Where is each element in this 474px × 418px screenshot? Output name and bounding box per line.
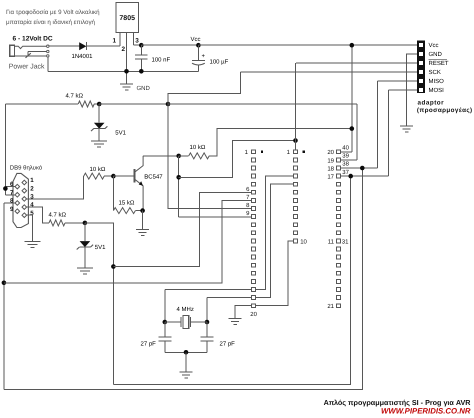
label adaptor — [418, 100, 445, 107]
label R5 10 kOhm — [190, 144, 206, 151]
wire xtal2 drop — [206, 298, 208, 322]
label DB9 pin 5 — [30, 210, 34, 217]
label R4 4.7 kOhm — [49, 212, 67, 219]
ground zener1 — [91, 141, 107, 147]
node Vcc junction — [196, 43, 201, 48]
label GND pin — [429, 51, 443, 58]
svg-text:1N4001: 1N4001 — [72, 53, 94, 60]
wire collector to R5 — [179, 155, 189, 157]
wire MOSI bottom run — [113, 176, 350, 385]
svg-text:Power Jack: Power Jack — [9, 64, 45, 71]
IC socket column B pins — [294, 150, 298, 243]
capacitor C2 100uF electrolytic — [192, 45, 205, 71]
label C3 27 pF — [141, 341, 157, 348]
svg-text:11: 11 — [328, 238, 335, 245]
svg-text:15 kΩ: 15 kΩ — [119, 200, 135, 207]
svg-text:9: 9 — [246, 210, 250, 217]
label colA pin20 — [250, 311, 257, 318]
marker colA pin1 — [261, 151, 263, 153]
label Vcc — [191, 36, 201, 43]
wire base node to Q1 — [113, 175, 134, 177]
svg-text:10 kΩ: 10 kΩ — [190, 144, 206, 151]
label GND — [137, 85, 151, 92]
ground under 7805 — [120, 84, 133, 90]
label MOSI pin — [429, 87, 445, 94]
wire xtal1 drop — [164, 290, 166, 323]
wire DB9 pin3 to R2 — [26, 176, 83, 199]
ground adaptor — [400, 126, 413, 132]
label colA pin6 — [246, 186, 250, 193]
wire 15k drop — [112, 176, 114, 211]
wire MISO line left — [4, 201, 252, 283]
node xtal2 junction — [205, 320, 210, 325]
svg-text:μπαταρία είναι η ιδανική επιλο: μπαταρία είναι η ιδανική επιλογή — [6, 19, 96, 26]
svg-text:3: 3 — [135, 38, 139, 45]
svg-text:4 MHz: 4 MHz — [177, 306, 194, 313]
label DB9 pin 7 — [10, 189, 14, 196]
svg-text:Vcc: Vcc — [191, 36, 201, 43]
connector DB9 female — [13, 173, 28, 227]
svg-text:20: 20 — [250, 311, 257, 318]
label colC 11 — [328, 238, 335, 245]
crystal X1 4MHz — [165, 316, 207, 329]
label C4 27 pF — [220, 341, 236, 348]
svg-text:1: 1 — [112, 38, 116, 45]
capacitor C1 100nF — [135, 45, 148, 71]
power jack J1 — [10, 45, 49, 58]
label colC 40 — [342, 144, 349, 151]
svg-text:WWW.PIPERIDIS.CO.NR: WWW.PIPERIDIS.CO.NR — [381, 407, 471, 416]
wire DB9 pin4 to R4 — [26, 207, 49, 223]
node pullup junction — [350, 126, 355, 131]
wire R4 to zener2 — [65, 222, 85, 224]
resistor R2 10k base — [84, 173, 105, 179]
label DB9 pin 3 — [30, 194, 34, 201]
wire R5 to Vcc drop — [209, 129, 352, 156]
svg-text:Για τροφοδοσία με 9 Volt αλκαλ: Για τροφοδοσία με 9 Volt αλκαλική — [6, 9, 100, 16]
svg-text:21: 21 — [327, 303, 334, 310]
wire Vcc to colC pin40 — [341, 45, 352, 152]
svg-text:1: 1 — [245, 149, 249, 156]
wire MISO line — [377, 80, 417, 82]
label colC 17 — [327, 174, 334, 181]
node pin2-gnd junction — [124, 69, 129, 74]
wire reset up to adaptor — [295, 63, 297, 141]
svg-text:4.7 kΩ: 4.7 kΩ — [66, 93, 84, 100]
svg-text:6 - 12Volt DC: 6 - 12Volt DC — [13, 36, 53, 43]
node Vcc rail junction — [350, 43, 355, 48]
svg-text:8: 8 — [10, 198, 14, 205]
svg-text:5V1: 5V1 — [115, 130, 126, 137]
label colC 31 — [342, 238, 349, 245]
label DB9 pin 4 — [30, 202, 34, 209]
label colA pin1 — [245, 149, 249, 156]
svg-text:1: 1 — [287, 149, 291, 156]
wire colA pin20 to colB pin10 — [256, 241, 293, 306]
transistor Q1 BC547 — [135, 156, 144, 210]
svg-text:27 pF: 27 pF — [220, 341, 236, 348]
node zener1 junction — [97, 102, 102, 107]
resistor R5 10k pullup — [189, 153, 210, 159]
node emitter junction — [140, 208, 145, 213]
label RESET pin — [429, 60, 449, 67]
resistor R4 4.7k — [49, 220, 65, 226]
label colB pin10 — [300, 238, 307, 245]
IC socket column A pins 1-20 — [252, 150, 256, 308]
connector J2 ISP adaptor — [417, 41, 425, 93]
label 5V1 second — [95, 244, 106, 251]
label 5V1 — [115, 130, 126, 137]
svg-text:2: 2 — [121, 46, 125, 53]
svg-text:(προσαρμογέας): (προσαρμογέας) — [417, 107, 473, 114]
svg-text:40: 40 — [342, 144, 349, 151]
wire jack tip to diode — [49, 45, 80, 47]
svg-text:Vcc: Vcc — [429, 42, 439, 49]
label Power Jack — [9, 64, 45, 71]
wire R1 to node — [94, 103, 99, 105]
label DB9 pin 8 — [10, 198, 14, 205]
wire xtal2 to colA pin19 — [207, 297, 251, 299]
svg-text:37: 37 — [342, 169, 349, 176]
ground DB9 — [25, 242, 41, 248]
label prosarmogeas — [417, 107, 473, 114]
regulator U2 7805 — [116, 2, 138, 32]
node xtal1 junction — [163, 320, 168, 325]
svg-text:MOSI: MOSI — [429, 87, 445, 94]
website text — [381, 407, 471, 416]
label R2 10 kOhm — [90, 166, 106, 173]
wire SCK to colA pin8 — [168, 104, 251, 209]
wire node to SCK junction — [99, 103, 168, 105]
label R1 4.7 kOhm — [66, 93, 84, 100]
wire DB9 pin5 to ground — [26, 215, 32, 242]
label colA pin7 — [246, 194, 250, 201]
svg-text:BC547: BC547 — [144, 174, 163, 181]
ground crystal — [180, 372, 193, 378]
node reset-colB junction — [293, 138, 298, 143]
label BC547 — [144, 174, 163, 181]
label colC 39 — [342, 153, 349, 160]
svg-text:SCK: SCK — [429, 69, 441, 76]
svg-text:38: 38 — [342, 161, 349, 168]
node crystal gnd junction — [184, 350, 189, 355]
label DB9 pin 1 — [30, 177, 34, 184]
label colC 18 — [327, 165, 334, 172]
label DB9 thiliko — [10, 165, 43, 172]
wire MOSI to colA pin6 — [113, 192, 251, 266]
resistor R3 15k — [113, 208, 135, 214]
label pin3 — [135, 38, 139, 45]
label colC 19 — [327, 157, 334, 164]
svg-text:27 pF: 27 pF — [141, 341, 157, 348]
svg-text:7: 7 — [246, 194, 250, 201]
label pin1 — [112, 38, 116, 45]
node MOSI junction — [348, 174, 353, 179]
svg-text:DB9 θηλυκό: DB9 θηλυκό — [10, 165, 43, 172]
wire MISO to colC pin38 — [341, 81, 378, 168]
wire MISO bottom run — [4, 168, 362, 390]
svg-text:+: + — [202, 54, 205, 60]
wire collector line — [143, 155, 179, 157]
label 4 MHz — [177, 306, 194, 313]
wire xtal1 to colA pin18 — [165, 289, 252, 291]
label 100 uF — [210, 59, 229, 66]
label Vcc pin — [429, 42, 439, 49]
wire DB9 left vertical — [4, 104, 6, 195]
capacitor C3 27pF — [158, 322, 171, 352]
label 1N4001 — [72, 53, 94, 60]
node reset junction — [176, 175, 181, 180]
marker colB pin1 — [303, 151, 305, 153]
wire SCK up to adaptor — [168, 72, 241, 104]
svg-text:MISO: MISO — [429, 78, 445, 85]
svg-text:7: 7 — [10, 189, 14, 196]
svg-text:4.7 kΩ: 4.7 kΩ — [49, 212, 67, 219]
node zener2 junction — [83, 221, 88, 226]
capacitor C4 27pF — [201, 322, 214, 352]
svg-text:10: 10 — [300, 238, 307, 245]
label SCK pin — [429, 69, 441, 76]
node collector junction — [176, 154, 181, 159]
svg-text:39: 39 — [342, 153, 349, 160]
wire diode to 7805 pin1 — [86, 32, 120, 46]
wire SCK to colC pin39 — [341, 104, 357, 160]
wire emitter to ground — [142, 211, 144, 230]
title text — [324, 398, 472, 407]
wire MOSI to colC pin37 — [341, 90, 389, 176]
label DB9 pin 6 — [10, 181, 14, 188]
label colC 20 — [327, 149, 334, 156]
svg-text:20: 20 — [327, 149, 334, 156]
zener D2 5V1 — [91, 104, 107, 141]
label colA pin8 — [246, 202, 250, 209]
svg-text:RESET: RESET — [429, 60, 449, 67]
wire 7805 pin3 to Vcc rail — [133, 32, 141, 45]
zener D3 5V1 — [77, 223, 93, 268]
IC socket column C pins — [337, 150, 341, 308]
label colC 38 — [342, 161, 349, 168]
resistor R1 4.7k — [78, 101, 94, 107]
wire RESET line — [296, 62, 417, 64]
label colB pin1 — [287, 149, 291, 156]
label DB9 pin 9 — [10, 206, 14, 213]
label 100 nF — [152, 57, 171, 64]
ground colA pin20 — [229, 319, 242, 325]
ground emitter — [136, 230, 149, 236]
wire SCK line — [241, 71, 417, 73]
wire reset node to col B pin1 — [179, 141, 296, 178]
svg-text:GND: GND — [429, 51, 443, 58]
node base junction — [111, 174, 116, 179]
wire MOSI node right — [85, 223, 114, 385]
wire colA pin20 to ground — [235, 306, 251, 319]
svg-text:7805: 7805 — [119, 15, 135, 22]
label 6-12V DC — [13, 36, 53, 43]
label R3 15 kOhm — [119, 200, 135, 207]
wire colB pin1 drop — [295, 141, 297, 150]
svg-text:3: 3 — [30, 194, 34, 201]
svg-text:18: 18 — [327, 165, 334, 172]
node C1-gnd junction — [139, 69, 144, 74]
node MISO-left junction — [2, 281, 7, 286]
wire R3 to emitter — [135, 210, 142, 212]
label colC 21 — [327, 303, 334, 310]
svg-text:9: 9 — [10, 206, 14, 213]
svg-text:17: 17 — [327, 174, 334, 181]
wire colA pin19 to colB pin5 — [256, 184, 293, 297]
node MISO junction — [360, 166, 365, 171]
wire MOSI line — [389, 89, 417, 91]
svg-text:1: 1 — [30, 177, 34, 184]
wire DB9 pin7 — [5, 194, 15, 196]
node MOSI branch junction — [111, 264, 116, 269]
label colA pin9 — [246, 210, 250, 217]
svg-text:6: 6 — [10, 181, 14, 188]
wire SCK line right — [168, 103, 357, 105]
svg-text:31: 31 — [342, 238, 349, 245]
svg-text:GND: GND — [137, 85, 151, 92]
wire colA pin18 to colB pin4 — [256, 176, 293, 289]
svg-text:adaptor: adaptor — [418, 100, 445, 107]
wire Vcc rail to adaptor — [198, 44, 417, 46]
wire power ground rail — [48, 57, 199, 71]
node DB9 pin6-7 junction — [3, 186, 8, 191]
wire reset node vertical — [178, 156, 180, 217]
svg-text:10 kΩ: 10 kΩ — [90, 166, 106, 173]
node SCK junction — [166, 102, 171, 107]
svg-text:100 µF: 100 µF — [210, 59, 229, 66]
svg-text:100 nF: 100 nF — [152, 57, 171, 64]
label pin2 — [121, 46, 125, 53]
svg-text:19: 19 — [327, 157, 334, 164]
wire to crystal ground — [185, 352, 187, 372]
wire reset to colA pin9 — [179, 216, 252, 218]
label DB9 pin 2 — [30, 185, 34, 192]
wire Vcc rail — [141, 44, 198, 46]
wire DB9 pin8 — [4, 203, 15, 390]
wire DB9 to R1 — [5, 103, 78, 105]
label colC 37 — [342, 169, 349, 176]
node output junction — [139, 43, 144, 48]
wire R2 to base node — [104, 175, 113, 177]
wire 7805 pin2 down — [126, 32, 128, 84]
wire crystal ground run — [165, 351, 207, 353]
svg-text:8: 8 — [246, 202, 250, 209]
wire DB9 pin6 — [5, 186, 15, 188]
note: Greek annotation text — [6, 9, 100, 26]
ground zener2 — [77, 268, 93, 274]
svg-text:2: 2 — [30, 185, 34, 192]
svg-text:6: 6 — [246, 186, 250, 193]
wire adaptor GND to ground — [407, 54, 417, 126]
label MISO pin — [429, 78, 445, 85]
svg-text:4: 4 — [30, 202, 34, 209]
svg-text:5V1: 5V1 — [95, 244, 106, 251]
diode D1 1N4001 — [79, 42, 86, 50]
